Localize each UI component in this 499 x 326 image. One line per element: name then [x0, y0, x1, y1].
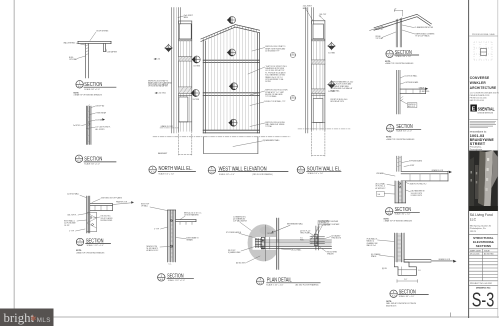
svg-text:SCALE: 3/4" = 1'-0": SCALE: 3/4" = 1'-0" — [84, 163, 100, 166]
svg-text:BASEMENT: BASEMENT — [158, 152, 167, 155]
sim bolt lines — [310, 237, 325, 244]
legal fine print — [470, 121, 496, 127]
south top panel — [313, 24, 323, 39]
west studs — [208, 27, 255, 130]
svg-text:(2) STL PL 1/2: (2) STL PL 1/2 — [300, 231, 310, 233]
d4 anchor bolt — [170, 245, 172, 247]
svg-text:SIMPSON CS20 HOLD DOWN: SIMPSON CS20 HOLD DOWN — [265, 90, 288, 92]
svg-text:1'-0: 1'-0 — [418, 270, 421, 272]
d3 wall lines — [87, 196, 90, 233]
svg-text:FRONT OF BLDG 2x10: FRONT OF BLDG 2x10 — [331, 99, 348, 101]
svg-text:2'-0": 2'-0" — [404, 279, 408, 281]
svg-text:DBL TOP PL: DBL TOP PL — [68, 215, 77, 217]
svg-text:3/4 TRIM: 3/4 TRIM — [328, 52, 335, 54]
south foundation dashed — [312, 130, 325, 156]
svg-text:(E) STUD TOGETHER: (E) STUD TOGETHER — [323, 224, 340, 226]
svg-text:SIMPSON CS20 HOLDING: SIMPSON CS20 HOLDING — [265, 122, 285, 124]
west title underline — [218, 171, 288, 173]
svg-text:DBL TOP: DBL TOP — [320, 14, 327, 16]
d6 title marker — [387, 124, 394, 132]
south lower panel — [313, 99, 323, 123]
d9 channel CL line — [264, 225, 266, 261]
north lower panel — [179, 97, 188, 122]
north grade line — [160, 127, 179, 129]
d9 title marker — [257, 277, 264, 285]
svg-text:PROFESSIONAL SEAL: PROFESSIONAL SEAL — [472, 33, 496, 36]
svg-text:SUB FLR PLYWD, PL2: SUB FLR PLYWD, PL2 — [410, 183, 427, 185]
svg-text:5/8 GYP BD: 5/8 GYP BD — [96, 106, 106, 108]
svg-text:DOWN JOISTS: DOWN JOISTS — [411, 195, 422, 197]
svg-text:SCALE: 3/4" = 1'-0": SCALE: 3/4" = 1'-0" — [84, 88, 100, 91]
svg-text:NEW (2) 2x6 @ 16" O.C.: NEW (2) 2x6 @ 16" O.C. — [184, 212, 202, 214]
svg-text:THRU PLGS: THRU PLGS — [300, 233, 309, 235]
north top panel — [179, 24, 191, 39]
west floor band A — [203, 60, 259, 62]
west foundation box — [204, 137, 258, 154]
west inner markers — [227, 49, 236, 56]
d7 masonry below — [395, 181, 406, 203]
south right note block — [331, 81, 354, 93]
d7 grade arrow — [449, 171, 452, 174]
owner SA Living Fund LLC — [470, 213, 493, 221]
d2 wall bolt — [88, 123, 90, 125]
d8 title underline — [399, 294, 429, 296]
svg-text:MC8x20: MC8x20 — [268, 233, 274, 235]
d3 left leaders — [76, 214, 87, 232]
north wall left chimney lines — [171, 8, 173, 134]
sim bolts — [316, 237, 318, 239]
titleblock bottom rule — [469, 308, 498, 310]
d9 shaded circle — [248, 224, 280, 261]
svg-text:3/4 TRIM: 3/4 TRIM — [193, 66, 200, 68]
svg-text:SCALE: 3/4" = 1'-0": SCALE: 3/4" = 1'-0" — [396, 55, 412, 58]
svg-text:3/4 TRIM: 3/4 TRIM — [193, 99, 200, 101]
svg-text:(N) BASEMENT WALL: (N) BASEMENT WALL — [263, 139, 280, 142]
d6 junction hatch — [400, 97, 403, 102]
d6 wall lines — [397, 70, 401, 114]
south top extension — [311, 8, 313, 25]
d8 dim line below — [397, 280, 418, 283]
d1 roof beam — [78, 41, 111, 43]
d4 masonry fill — [168, 210, 176, 262]
d7 anchor bolts — [399, 183, 401, 185]
d4 ledger bolt — [171, 220, 173, 222]
svg-text:SSENTIAL: SSENTIAL — [478, 106, 495, 111]
d2 wall lines — [86, 106, 91, 145]
west wall sill lines — [203, 129, 259, 131]
d5 roof band — [374, 14, 432, 30]
d7 wall above — [397, 156, 401, 171]
d7 title underline — [394, 211, 419, 213]
svg-text:LLC: LLC — [470, 217, 477, 221]
svg-text:NOTE:: NOTE: — [386, 137, 392, 139]
label L2 leader — [248, 67, 265, 74]
north floor band 2 — [179, 87, 192, 96]
Essential logo — [470, 105, 494, 115]
title block left border — [468, 0, 470, 318]
south title marker — [297, 166, 304, 174]
svg-text:SCALE: 3/4" = 1'-0": SCALE: 3/4" = 1'-0" — [396, 130, 412, 133]
scan left edge — [13, 0, 15, 318]
d6 title underline — [396, 128, 421, 130]
legal rule — [469, 119, 498, 121]
d2 wall hatch — [88, 105, 90, 143]
d1 title underline — [84, 86, 116, 88]
label L3 leader — [250, 91, 265, 95]
svg-text:ARCHITECTURE: ARCHITECTURE — [470, 85, 497, 90]
svg-text:AS NOTED: AS NOTED — [484, 253, 494, 256]
svg-text:09.04.2005: 09.04.2005 — [470, 254, 479, 256]
d5 eave line — [370, 26, 384, 30]
d7 left wall labels — [376, 182, 386, 189]
d8 left leaders — [378, 240, 395, 257]
title block right border — [497, 0, 499, 318]
key plan — [474, 42, 492, 60]
north wall box — [179, 21, 192, 131]
svg-text:19123: 19123 — [470, 231, 477, 233]
south marker lower — [328, 81, 336, 89]
d2 title underline — [84, 161, 116, 163]
svg-text:W/ PL SILL &: W/ PL SILL & — [376, 186, 386, 188]
svg-text:NORTH WALL EL.: NORTH WALL EL. — [159, 166, 193, 172]
d3 right leaders — [94, 217, 101, 218]
south floor band 2 — [312, 89, 325, 95]
svg-text:S-3: S-3 — [472, 289, 495, 311]
svg-text:RIDGE: RIDGE — [376, 36, 381, 38]
west roof slopes — [201, 25, 260, 42]
west ridge marker — [227, 17, 236, 24]
svg-text:SCALE: 1 1/2" = 1'-0": SCALE: 1 1/2" = 1'-0" — [168, 279, 186, 282]
d1 post hatch — [86, 45, 89, 56]
d7 masonry fill — [395, 181, 406, 203]
svg-text:STREET: STREET — [470, 142, 486, 146]
sheet title rule — [469, 233, 498, 235]
svg-text:NOTE:: NOTE: — [74, 92, 80, 94]
d8 footing inner — [398, 269, 416, 271]
d9 cl bearing label — [233, 215, 247, 222]
scan corner tick — [450, 313, 452, 318]
north title marker — [149, 166, 156, 174]
seal rule — [469, 35, 498, 37]
d8 grade arrow — [453, 260, 457, 263]
north wall foundation dashed — [179, 131, 192, 155]
south title underline — [307, 170, 341, 172]
project name 1001-03 BRANDYWINE STREET — [470, 134, 494, 146]
firm address lines — [470, 92, 499, 103]
north marker lower-right — [191, 90, 200, 97]
svg-text:FINISH FLOOR: FINISH FLOOR — [116, 201, 128, 203]
d6 shelf ticks — [406, 89, 420, 94]
svg-text:ISSUE: ISSUE — [484, 250, 490, 252]
svg-text:(E) WD JSTS: (E) WD JSTS — [236, 262, 246, 264]
d4 ledger — [176, 220, 196, 222]
d3 title underline — [86, 243, 111, 245]
svg-text:5" TYP: 5" TYP — [154, 229, 159, 231]
svg-text:WD POST: WD POST — [228, 250, 235, 252]
west wall outline — [203, 33, 259, 133]
scan bottom edge — [54, 316, 499, 318]
d8 title marker — [390, 290, 397, 298]
d5 title marker — [386, 50, 393, 58]
d3 left labels — [64, 215, 77, 233]
svg-text:980 Spring Garden St: 980 Spring Garden St — [470, 224, 492, 227]
firm name CONVERSE WINKLER ARCHITECTURE — [470, 75, 497, 90]
svg-text:WOOD SHIM: WOOD SHIM — [327, 251, 337, 253]
d8 grade lines — [404, 260, 452, 262]
svg-text:NEW BOLT W/: NEW BOLT W/ — [147, 246, 158, 248]
svg-text:DURING ROWS: DURING ROWS — [101, 220, 113, 222]
d9 plate — [261, 237, 264, 249]
svg-text:(AT 2ND FLOOR FRAMING): (AT 2ND FLOOR FRAMING) — [296, 283, 319, 286]
svg-text:2x4 STUD: 2x4 STUD — [73, 125, 81, 127]
svg-text:2x10 FLR JSTS: 2x10 FLR JSTS — [411, 193, 422, 195]
d3 right labels — [101, 216, 114, 222]
svg-text:BRG: BRG — [184, 17, 189, 19]
d3 joist ticks — [95, 205, 107, 210]
d9 title underline — [267, 282, 321, 284]
svg-text:NOTE:: NOTE: — [386, 301, 392, 303]
svg-text:GRADE FLOOR: GRADE FLOOR — [161, 125, 174, 128]
d6 simpson boxed label — [407, 103, 417, 108]
d3 title marker — [76, 238, 83, 246]
label circle mark 2 — [290, 95, 295, 100]
d7 joist ticks — [410, 174, 440, 181]
svg-text:Philadelphia, Pa.: Philadelphia, Pa. — [470, 228, 487, 230]
north left note block — [148, 80, 172, 88]
svg-text:OF JST: OF JST — [64, 225, 70, 227]
d8 footing — [395, 262, 417, 275]
d8 left labels — [367, 238, 381, 259]
svg-text:NOTED: NOTED — [265, 81, 271, 83]
west title marker — [208, 166, 215, 174]
d2 wall fill — [86, 106, 91, 145]
d2 title marker — [75, 155, 82, 163]
d4 brick hatch — [170, 213, 173, 257]
svg-text:(E) BS: (E) BS — [382, 268, 387, 270]
d5 ridge post — [396, 18, 401, 47]
svg-text:SIMPSON: SIMPSON — [408, 104, 416, 106]
svg-text:2" TYP: 2" TYP — [69, 231, 74, 233]
svg-text:CONT. 2x: CONT. 2x — [376, 29, 383, 31]
d3 hatched joint — [87, 213, 97, 232]
d4 hanger ticks — [180, 222, 192, 225]
d1 fascia drop — [104, 44, 106, 52]
d4 title underline — [167, 278, 194, 280]
d7 masonry hatch — [399, 184, 403, 200]
revision table — [469, 249, 498, 281]
d8 wall fill — [395, 233, 405, 262]
svg-text:BRG: BRG — [303, 8, 308, 10]
d6 joist shelf — [400, 89, 426, 94]
sim hatch ticks — [311, 235, 313, 243]
label L4 leader — [250, 102, 264, 106]
svg-text:SECTIONS: SECTIONS — [476, 244, 491, 248]
svg-text:SCALE: 1 1/2" = 1'-0": SCALE: 1 1/2" = 1'-0" — [266, 283, 284, 286]
d7 wall hatch — [397, 157, 401, 167]
svg-text:STL BOLTS &: STL BOLTS & — [101, 216, 112, 218]
north marker top-left — [165, 44, 173, 52]
north marker upper-right — [192, 56, 201, 63]
svg-text:(E) 2x4 STUD: (E) 2x4 STUD — [156, 93, 167, 95]
svg-text:NOTE:: NOTE: — [76, 250, 82, 252]
west rafter ticks — [204, 25, 257, 40]
svg-text:SCALE: 3/4" = 1'-0": SCALE: 3/4" = 1'-0" — [395, 213, 411, 216]
d2 right labels — [96, 106, 111, 131]
d5 top dim — [394, 9, 402, 16]
svg-text:JOIST: JOIST — [410, 165, 415, 167]
d7 boxed label — [376, 191, 384, 196]
svg-text:2x4: 2x4 — [378, 194, 381, 196]
svg-text:(2ND FLOOR FRAMING): (2ND FLOOR FRAMING) — [252, 173, 273, 176]
south wall box — [312, 21, 325, 130]
svg-text:CL BE BRNG: CL BE BRNG — [420, 91, 430, 93]
south inner studs — [314, 41, 323, 130]
svg-text:EXIST TOP: EXIST TOP — [141, 203, 149, 205]
d4 masonry wall — [168, 210, 176, 262]
svg-text:C.L.: C.L. — [169, 263, 173, 265]
d7 floor band — [401, 171, 448, 181]
svg-text:E: E — [472, 107, 476, 113]
d7 title marker — [386, 207, 393, 215]
svg-text:NOTE:: NOTE: — [385, 61, 391, 63]
north floor band 1 — [179, 57, 192, 61]
d6 grade arrow — [425, 87, 428, 90]
d2 right leaders — [86, 106, 95, 128]
d1 wall post — [86, 44, 89, 78]
site photo — [469, 151, 498, 212]
sim wall vertical — [316, 226, 318, 250]
south marker upper — [328, 42, 336, 50]
south left thin lines — [305, 8, 307, 134]
d2 arrow mark — [102, 118, 105, 120]
svg-text:SCALE: 1/4" = 1'-0": SCALE: 1/4" = 1'-0" — [308, 172, 324, 175]
d9 wall plan vertical — [276, 218, 279, 270]
svg-text:BLKG: BLKG — [69, 57, 74, 59]
d9 wall plan horizontal — [262, 240, 332, 248]
svg-text:1/2" CDX PLYWD PL: 1/2" CDX PLYWD PL — [96, 127, 111, 129]
south floor band 1 — [312, 60, 325, 64]
d9 stud wall label — [318, 219, 331, 226]
north title underline — [158, 171, 195, 173]
svg-text:NOTE:: NOTE: — [384, 218, 390, 220]
svg-text:PROJECT NO. 04-1112: PROJECT NO. 04-1112 — [470, 283, 493, 285]
d3 floor lines — [90, 204, 113, 211]
svg-text:PL: PL — [320, 16, 322, 18]
label L5 leader — [250, 123, 265, 127]
brightMLS logo box — [0, 309, 54, 326]
d1 title marker — [76, 80, 83, 88]
d3 bolts — [90, 217, 92, 219]
south grade dash — [298, 128, 350, 130]
svg-text:MLS: MLS — [37, 317, 51, 324]
d3 wall fill — [87, 196, 90, 233]
d8 wall hatch — [397, 236, 402, 260]
d5 title underline — [395, 54, 419, 56]
d8 wall — [395, 233, 405, 267]
svg-text:MARK DATE: MARK DATE — [470, 249, 482, 252]
svg-text:FAX 215.555.0166: FAX 215.555.0166 — [470, 99, 484, 102]
svg-text:DESIGN SERVICES: DESIGN SERVICES — [478, 112, 494, 114]
d4 title marker — [158, 273, 165, 281]
d3 floor arrow — [113, 203, 132, 205]
west grade line — [153, 136, 290, 138]
west floor band B — [203, 93, 259, 96]
svg-text:THRU BOLTS: THRU BOLTS — [331, 238, 341, 240]
label circle mark 1 — [290, 52, 295, 57]
svg-text:ROOF SHTHNG: ROOF SHTHNG — [97, 31, 110, 33]
label L1 leader — [252, 48, 265, 52]
svg-text:SCALE: 1 1/2" = 1'-0": SCALE: 1 1/2" = 1'-0" — [87, 244, 105, 247]
d4 bolt label — [147, 246, 160, 252]
svg-text:renovations to:: renovations to: — [470, 130, 487, 134]
svg-text:SCALE: 1/4" = 1'-0": SCALE: 1/4" = 1'-0" — [219, 173, 235, 176]
svg-text:SCALE: 1/4" = 1'-0": SCALE: 1/4" = 1'-0" — [159, 172, 175, 175]
north wall inner studs — [181, 41, 190, 132]
svg-text:SCALE: 3/4" = 1'-0": SCALE: 3/4" = 1'-0" — [399, 295, 415, 298]
sheet title STRUCTURAL ELEVATIONS SECTIONS — [473, 236, 495, 248]
owner address — [470, 224, 492, 233]
north wall top extension — [178, 8, 180, 25]
d9 bolt assembly — [255, 239, 262, 248]
sim plate — [315, 234, 318, 246]
